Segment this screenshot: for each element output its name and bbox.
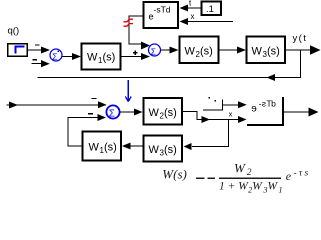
svg-text:(s): (s) xyxy=(200,46,213,58)
svg-text:T: T xyxy=(266,99,271,109)
svg-text:W: W xyxy=(252,181,263,193)
svg-text:(s): (s) xyxy=(104,142,117,154)
svg-text:x: x xyxy=(191,12,195,21)
svg-text:-sTd: -sTd xyxy=(154,5,171,15)
svg-text:(s): (s) xyxy=(103,52,116,64)
svg-text:d: d xyxy=(271,99,276,109)
svg-text:e: e xyxy=(251,104,257,115)
svg-text:.1: .1 xyxy=(206,4,214,15)
svg-text:e: e xyxy=(286,169,292,183)
svg-text:2: 2 xyxy=(247,168,252,178)
svg-text:s: s xyxy=(262,99,266,109)
svg-text:W: W xyxy=(89,142,100,154)
svg-text:W: W xyxy=(252,46,263,58)
svg-text:t: t xyxy=(189,0,192,8)
svg-text:W: W xyxy=(87,52,98,64)
svg-text:W(s): W(s) xyxy=(162,167,187,182)
svg-text:-τs: -τs xyxy=(294,169,311,179)
svg-text:Σ: Σ xyxy=(151,47,156,57)
svg-text:1: 1 xyxy=(278,184,282,194)
svg-text:(s): (s) xyxy=(164,107,177,119)
svg-text:(s): (s) xyxy=(267,46,280,58)
svg-text:W: W xyxy=(149,107,160,119)
svg-text:W: W xyxy=(149,144,160,156)
svg-text:W: W xyxy=(268,181,279,193)
svg-text:x: x xyxy=(229,110,233,119)
svg-text:y(t: y(t xyxy=(293,33,308,44)
svg-text:1 + W: 1 + W xyxy=(219,181,249,193)
svg-text:(s): (s) xyxy=(164,144,177,156)
svg-text:W: W xyxy=(234,161,246,176)
svg-text:-: - xyxy=(259,99,262,109)
svg-text:q(): q() xyxy=(8,26,20,37)
svg-text:W: W xyxy=(185,46,196,58)
svg-text:Σ: Σ xyxy=(109,109,115,120)
svg-text:Σ: Σ xyxy=(52,52,57,62)
